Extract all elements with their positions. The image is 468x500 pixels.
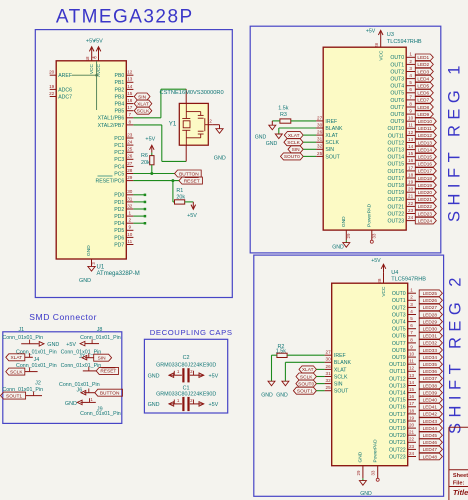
svg-text:XLAT: XLAT <box>137 101 149 107</box>
svg-text:OUT6: OUT6 <box>392 334 406 340</box>
connector J4 reference <box>34 357 40 363</box>
svg-text:ADC7: ADC7 <box>58 94 72 100</box>
svg-text:17: 17 <box>408 165 414 170</box>
svg-text:U3: U3 <box>387 32 394 38</box>
svg-text:SCLK: SCLK <box>137 109 150 115</box>
pin 15 OUT14 U4 right <box>389 387 416 397</box>
svg-text:BLANK: BLANK <box>325 126 343 132</box>
svg-text:13: 13 <box>408 137 414 142</box>
pin 23 OUT22 U4 right <box>389 444 416 454</box>
ground symbol at R2 <box>261 381 275 398</box>
connector J2 pin <box>26 391 42 395</box>
pin 2 OUT1 U4 right <box>392 295 416 305</box>
svg-text:PB2: PB2 <box>114 87 124 93</box>
pin 11 OUT10 U4 right <box>389 359 416 369</box>
svg-text:SOUT0: SOUT0 <box>298 381 314 387</box>
svg-text:BLANK: BLANK <box>334 360 352 366</box>
wire stub PD2 <box>133 208 146 211</box>
capacitor C1 reference <box>183 385 190 391</box>
hierarchical label LED2 <box>415 61 433 68</box>
svg-text:OUT14: OUT14 <box>389 391 406 397</box>
svg-text:SOUT1: SOUT1 <box>297 389 313 395</box>
svg-text:LED19: LED19 <box>418 183 433 188</box>
ic U4 TLC5947RHB body <box>332 283 408 466</box>
title block File label <box>453 480 465 486</box>
svg-text:+5V: +5V <box>209 402 219 408</box>
capacitor C2 pin 1 <box>169 369 182 377</box>
global label SCLK at U1 PB5 <box>134 107 152 114</box>
pin 33 PowerPAD U4 bottom <box>371 439 380 481</box>
pin 17 PB5 U1 right <box>114 105 133 115</box>
pin 22 OUT21 U3 right <box>387 201 415 211</box>
hierarchical label LED6 <box>415 90 433 97</box>
svg-text:OUT19: OUT19 <box>387 190 404 196</box>
power +5V symbol at U1 VCC pin 4/6 <box>86 39 96 61</box>
svg-text:LED28: LED28 <box>423 312 438 317</box>
pin 18 OUT17 U4 right <box>389 408 416 418</box>
svg-text:23: 23 <box>408 208 414 213</box>
section box SHIFT REG 2 <box>254 255 444 496</box>
pin numbers 3 5 21 U1 GND <box>91 262 96 265</box>
svg-text:12: 12 <box>408 130 414 135</box>
svg-text:OUT14: OUT14 <box>387 155 404 161</box>
svg-text:LED10: LED10 <box>418 119 433 124</box>
pin 25 SOUT U3 left <box>316 151 341 161</box>
svg-text:GND: GND <box>47 342 59 348</box>
svg-text:PC0: PC0 <box>114 136 124 142</box>
svg-text:SOUT: SOUT <box>334 389 349 395</box>
hierarchical label LED3 <box>415 68 433 75</box>
power +5V symbol at R1 (down) <box>187 202 197 219</box>
svg-text:GRM033C80J224KE90D: GRM033C80J224KE90D <box>156 391 216 397</box>
global label RESET at J3 <box>96 367 118 374</box>
wire resonator pin2 to ground <box>213 124 220 126</box>
svg-text:OUT17: OUT17 <box>387 176 404 182</box>
svg-text:17: 17 <box>409 401 415 406</box>
svg-text:SOUT: SOUT <box>325 154 340 160</box>
svg-text:3: 3 <box>409 66 412 71</box>
svg-text:LED1: LED1 <box>417 55 429 60</box>
power label GND at J1 <box>47 342 59 348</box>
pin number 18 U1 AVCC <box>85 56 90 61</box>
svg-text:10: 10 <box>408 116 414 121</box>
svg-text:9: 9 <box>410 344 413 349</box>
svg-text:20: 20 <box>409 423 415 428</box>
pin 22 ADC7 U1 left <box>49 91 72 101</box>
svg-text:J4: J4 <box>34 357 40 363</box>
hierarchical label LED34 <box>419 354 442 361</box>
svg-text:OUT18: OUT18 <box>387 183 404 189</box>
section box ATMEGA328P <box>35 30 232 298</box>
pin 31 PD1 U1 right <box>114 196 133 206</box>
svg-text:LED16: LED16 <box>418 162 433 167</box>
svg-text:PB4: PB4 <box>114 102 124 108</box>
pin 31 SCLK U3 left <box>316 137 339 147</box>
svg-text:LED7: LED7 <box>417 98 429 103</box>
pin 28 PC5 U1 right <box>114 168 133 178</box>
wire RESET to R1 <box>173 181 175 202</box>
connector J7 value Conn_01x01_Pin <box>61 349 102 355</box>
svg-text:GND: GND <box>65 401 77 407</box>
pin 8 OUT7 U3 right <box>390 101 415 111</box>
power label +5V at J8 <box>66 342 76 348</box>
hierarchical label LED12 <box>415 132 436 139</box>
power +5V symbol at U3 VCC <box>366 29 383 39</box>
wire stub PD3 <box>133 215 146 218</box>
svg-text:OUT20: OUT20 <box>387 197 404 203</box>
wire PC6 to RESET <box>133 180 179 182</box>
section title ATMEGA328P <box>56 7 194 28</box>
svg-text:SCLK: SCLK <box>287 140 300 146</box>
resistor R1 <box>175 188 186 204</box>
hierarchical label LED15 <box>415 153 436 160</box>
svg-text:OUT9: OUT9 <box>390 119 404 125</box>
svg-text:SIN: SIN <box>325 147 334 153</box>
svg-text:OUT20: OUT20 <box>389 433 406 439</box>
pin GND U1 bottom stub <box>91 259 93 266</box>
svg-text:3: 3 <box>410 302 413 307</box>
svg-text:File:: File: <box>453 480 465 486</box>
svg-text:12: 12 <box>127 70 133 75</box>
svg-text:LED8: LED8 <box>417 105 429 110</box>
wire R3 to IREF <box>291 120 316 122</box>
svg-text:OUT17: OUT17 <box>389 412 406 418</box>
svg-text:AREF: AREF <box>58 73 72 79</box>
svg-text:LED35: LED35 <box>423 362 438 367</box>
svg-text:OUT22: OUT22 <box>387 211 404 217</box>
svg-text:PC2: PC2 <box>114 150 124 156</box>
ic U1 reference U1 <box>97 265 105 271</box>
pin 22 OUT21 U4 right <box>389 437 416 447</box>
ground symbol at U3 BLANK <box>266 134 283 147</box>
resonator Y1 body <box>179 103 208 145</box>
global label SOUT1 at U4 <box>293 387 316 394</box>
svg-text:SIN: SIN <box>292 147 301 153</box>
hierarchical label LED19 <box>415 182 436 189</box>
svg-text:9: 9 <box>409 109 412 114</box>
svg-text:27: 27 <box>317 115 323 120</box>
svg-text:XLAT: XLAT <box>325 133 338 139</box>
wire U4 GND to ground <box>362 478 364 480</box>
svg-text:SCLK: SCLK <box>334 374 348 380</box>
svg-text:30: 30 <box>326 357 332 362</box>
svg-text:21: 21 <box>409 430 415 435</box>
svg-text:+5V: +5V <box>209 373 219 379</box>
svg-text:8: 8 <box>410 337 413 342</box>
svg-text:PC5: PC5 <box>114 171 124 177</box>
svg-text:GND: GND <box>86 245 92 256</box>
pin 2 OUT1 U3 right <box>390 59 415 69</box>
svg-text:OUT7: OUT7 <box>392 341 406 347</box>
hierarchical label LED14 <box>415 146 436 153</box>
pin 29 GND U4 bottom <box>356 451 364 478</box>
svg-text:SOUT1: SOUT1 <box>6 393 22 399</box>
svg-text:32: 32 <box>326 378 332 383</box>
pin 29 RESET/PC6 U1 right <box>95 175 133 185</box>
svg-text:SIN: SIN <box>98 356 107 362</box>
pin 5 OUT4 U4 right <box>392 316 416 326</box>
power label +5V at C2 <box>209 373 219 379</box>
svg-text:8: 8 <box>129 119 132 124</box>
pin 11 PD7 U1 right <box>114 239 133 249</box>
svg-text:LED41: LED41 <box>423 405 438 410</box>
wire label to U3 pin <box>303 134 316 136</box>
svg-text:OUT15: OUT15 <box>387 162 404 168</box>
svg-text:OUT23: OUT23 <box>389 454 406 460</box>
svg-text:13: 13 <box>409 373 415 378</box>
resonator Y1 internal capacitors <box>186 112 208 138</box>
pin 8 XTAL2/PB7 U1 right <box>98 119 134 129</box>
pin 16 PB4 U1 right <box>114 98 133 108</box>
svg-text:5: 5 <box>410 316 413 321</box>
hierarchical label LED10 <box>415 118 436 125</box>
hierarchical label LED47 <box>419 446 442 453</box>
global label SOUT1 at J2 <box>1 392 26 399</box>
svg-text:SHIFT REG 2: SHIFT REG 2 <box>447 272 465 434</box>
svg-text:LED6: LED6 <box>417 91 429 96</box>
hierarchical label LED44 <box>419 425 442 432</box>
connector J5 value Conn_01x01_Pin <box>16 363 57 369</box>
svg-text:OUT9: OUT9 <box>392 355 406 361</box>
svg-text:OUT12: OUT12 <box>389 376 406 382</box>
pin 20 OUT19 U3 right <box>387 187 415 197</box>
svg-text:28: 28 <box>127 168 133 173</box>
svg-text:11: 11 <box>409 359 414 364</box>
pin 16 OUT15 U4 right <box>389 394 416 404</box>
pin name VCC vertical U1 <box>89 63 95 74</box>
svg-text:OUT21: OUT21 <box>387 204 404 210</box>
svg-text:5: 5 <box>409 80 412 85</box>
svg-text:XLAT: XLAT <box>10 355 22 361</box>
wire PC5 to BUTTON <box>133 173 174 175</box>
capacitor C2 value GRM033C80J224KE90D <box>156 363 216 369</box>
svg-text:OUT10: OUT10 <box>389 362 406 368</box>
hierarchical label LED25 <box>419 290 442 297</box>
wire AREF to AVCC horizontal <box>72 74 97 76</box>
pin 13 OUT12 U3 right <box>387 137 415 147</box>
resonator Y1 pin 1 stub <box>185 89 187 103</box>
svg-text:LED42: LED42 <box>423 412 438 417</box>
pin 7 OUT6 U4 right <box>392 330 416 340</box>
connector J8 reference <box>97 327 103 333</box>
svg-text:J2: J2 <box>35 380 41 386</box>
svg-text:LED29: LED29 <box>423 319 438 324</box>
svg-text:OUT16: OUT16 <box>387 169 404 175</box>
svg-text:BUTTON: BUTTON <box>100 391 120 397</box>
svg-text:PD6: PD6 <box>114 235 124 241</box>
svg-text:+5V: +5V <box>66 342 76 348</box>
hierarchical label LED21 <box>415 196 436 203</box>
pin 32 SIN U4 left <box>325 378 343 388</box>
wire U3 GND to ground <box>345 240 347 242</box>
svg-text:LED13: LED13 <box>418 140 433 145</box>
pin 31 SCLK U4 left <box>325 371 348 381</box>
pin 30 BLANK U3 left <box>316 122 343 131</box>
hierarchical label LED45 <box>419 432 442 439</box>
svg-text:VCC: VCC <box>89 63 95 74</box>
svg-text:OUT13: OUT13 <box>389 383 406 389</box>
svg-text:PD7: PD7 <box>114 242 124 248</box>
svg-text:LED4: LED4 <box>417 76 429 81</box>
ground symbol below U3 <box>332 243 350 251</box>
resonator Y1 crystal element <box>182 103 190 145</box>
pin 8 OUT7 U4 right <box>392 337 416 347</box>
svg-text:OUT5: OUT5 <box>392 327 406 333</box>
connector J2 value Conn_01x01_Pin <box>2 387 43 393</box>
svg-text:PB0: PB0 <box>114 73 124 79</box>
svg-text:19: 19 <box>408 180 414 185</box>
svg-text:GND: GND <box>266 141 278 147</box>
svg-text:IREF: IREF <box>334 353 346 359</box>
svg-text:GND: GND <box>341 216 347 227</box>
wire label to U3 pin <box>303 141 316 143</box>
global label SIN at J7 <box>94 354 112 361</box>
svg-text:20: 20 <box>49 70 55 75</box>
svg-text:GND: GND <box>358 451 364 462</box>
svg-text:OUT10: OUT10 <box>387 126 404 132</box>
svg-text:BUTTON: BUTTON <box>179 171 199 177</box>
hierarchical label LED27 <box>419 304 442 311</box>
svg-text:LED47: LED47 <box>423 447 438 452</box>
svg-text:OUT1: OUT1 <box>390 62 404 68</box>
svg-text:25: 25 <box>127 147 133 152</box>
svg-text:LED5: LED5 <box>417 84 429 89</box>
pin 4 OUT3 U4 right <box>392 309 416 319</box>
svg-text:Conn_01x01_Pin: Conn_01x01_Pin <box>80 411 121 417</box>
svg-text:PD0: PD0 <box>114 193 124 199</box>
svg-text:+5V: +5V <box>187 213 197 219</box>
svg-text:LED22: LED22 <box>418 204 433 209</box>
pin 24 OUT23 U3 right <box>387 215 415 225</box>
svg-text:7: 7 <box>129 112 132 117</box>
svg-text:SIN: SIN <box>334 382 343 388</box>
svg-text:32: 32 <box>127 203 133 208</box>
svg-text:31: 31 <box>127 196 133 201</box>
svg-text:Sheet:: Sheet: <box>453 473 468 479</box>
connector J1 pin <box>21 340 44 346</box>
svg-text:PC1: PC1 <box>114 143 124 149</box>
svg-text:LED23: LED23 <box>418 211 433 216</box>
svg-text:2: 2 <box>410 295 413 300</box>
wire label to U4 pin <box>316 383 324 385</box>
junction AREF/AVCC <box>95 74 98 77</box>
junction RESET/R1 <box>171 179 174 182</box>
svg-text:9: 9 <box>129 225 132 230</box>
svg-text:23: 23 <box>409 444 415 449</box>
svg-text:16: 16 <box>409 394 415 399</box>
connector J7 pin <box>82 354 94 360</box>
svg-text:21: 21 <box>408 194 414 199</box>
wire label to U3 pin <box>303 155 316 157</box>
pin 10 OUT9 U4 right <box>392 352 416 362</box>
svg-text:LED37: LED37 <box>423 376 438 381</box>
global label XLAT at U1 PB4 <box>134 100 152 107</box>
svg-text:TLC5947RHB: TLC5947RHB <box>387 39 422 45</box>
svg-text:27: 27 <box>326 350 332 355</box>
svg-text:OUT8: OUT8 <box>390 112 404 118</box>
svg-text:11: 11 <box>408 123 413 128</box>
ic U4 reference U4 <box>391 270 398 276</box>
svg-text:10: 10 <box>409 352 415 357</box>
svg-text:14: 14 <box>408 144 414 149</box>
pin 12 PB0 U1 right <box>114 70 133 80</box>
wire label to U4 pin <box>316 390 324 392</box>
pin 30 BLANK U4 left <box>325 357 352 367</box>
svg-text:OUT22: OUT22 <box>389 447 406 453</box>
hierarchical label LED33 <box>419 347 442 354</box>
ground symbol below U1 <box>79 266 95 284</box>
svg-text:RESET: RESET <box>100 369 116 375</box>
svg-text:16: 16 <box>408 158 414 163</box>
power label GND at C2 <box>148 373 160 379</box>
svg-text:ATMEGA328P: ATMEGA328P <box>56 7 194 28</box>
power label +5V at C1 <box>209 402 219 408</box>
svg-text:GND: GND <box>148 402 160 408</box>
svg-text:SCLK: SCLK <box>325 140 339 146</box>
svg-text:8: 8 <box>409 101 412 106</box>
ic U1 value Atmega328P-M <box>97 271 140 277</box>
pin 21 OUT20 U4 right <box>389 430 416 440</box>
hierarchical label LED23 <box>415 210 436 217</box>
svg-text:2: 2 <box>409 59 412 64</box>
svg-text:ATmega328P-M: ATmega328P-M <box>97 271 140 277</box>
resonator Y1 pin 2 stub <box>208 118 212 124</box>
hierarchical label LED30 <box>419 325 442 332</box>
svg-text:15: 15 <box>408 151 414 156</box>
svg-text:24: 24 <box>409 451 415 456</box>
svg-text:OUT7: OUT7 <box>390 105 404 111</box>
svg-text:OUT15: OUT15 <box>389 398 406 404</box>
pin numbers 4 6 U1 VCC <box>91 56 98 59</box>
svg-text:19: 19 <box>49 84 55 89</box>
ground symbol at R3 <box>255 121 276 140</box>
svg-text:OUT21: OUT21 <box>389 440 406 446</box>
ic U4 value TLC5947RHB <box>391 277 426 283</box>
svg-text:LED25: LED25 <box>423 291 438 296</box>
wire label to U4 pin <box>316 376 324 378</box>
pin 15 PB3 U1 right <box>114 91 133 101</box>
svg-text:PD5: PD5 <box>114 228 124 234</box>
pin 6 OUT5 U3 right <box>390 87 415 97</box>
svg-text:GND: GND <box>255 134 267 140</box>
svg-text:OUT3: OUT3 <box>390 77 404 83</box>
hierarchical label LED37 <box>419 375 442 382</box>
pin 26 PC3 U1 right <box>114 154 133 164</box>
global label SCLK at U4 <box>296 373 316 380</box>
resonator Y1 value CSTNE16M0VS30000R0 <box>160 90 224 96</box>
hierarchical label LED46 <box>419 439 442 446</box>
power +5V symbol at R6 <box>145 136 155 152</box>
hierarchical label LED16 <box>415 161 436 168</box>
svg-text:Y1: Y1 <box>169 121 177 128</box>
svg-text:+5V: +5V <box>366 29 376 35</box>
svg-text:22: 22 <box>408 201 414 206</box>
hierarchical label LED38 <box>419 382 442 389</box>
hierarchical label LED43 <box>419 418 442 425</box>
svg-text:LED30: LED30 <box>423 327 438 332</box>
svg-text:LED2: LED2 <box>417 62 429 67</box>
wire AREF to AVCC vertical <box>96 61 98 110</box>
capacitor C1 pin 1 <box>169 398 182 406</box>
pin 24 PC1 U1 right <box>114 140 133 150</box>
svg-text:OUT1: OUT1 <box>392 298 406 304</box>
svg-text:20: 20 <box>408 187 414 192</box>
hierarchical label LED11 <box>415 125 436 132</box>
svg-text:22: 22 <box>49 91 55 96</box>
global label XLAT at U4 <box>299 366 316 373</box>
svg-text:SIN: SIN <box>138 94 147 100</box>
svg-text:C2: C2 <box>183 355 190 361</box>
